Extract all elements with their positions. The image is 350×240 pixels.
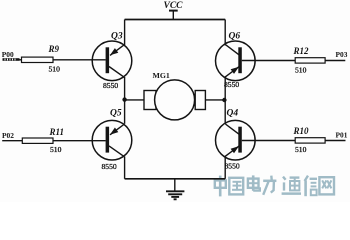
- wire Q5 collector to bottom rail: [124, 156, 126, 178]
- wire rail to Q3 emitter: [124, 20, 126, 46]
- svg-text:Q3: Q3: [111, 32, 123, 42]
- resistor R10: [242, 138, 346, 143]
- resistor R11: [2, 138, 105, 143]
- svg-text:510: 510: [295, 145, 307, 154]
- resistor R9: [20, 57, 106, 62]
- 通: [282, 177, 301, 194]
- svg-text:510: 510: [295, 65, 307, 74]
- transistor Q6: [216, 41, 256, 81]
- wire Q4 emitter to bottom rail: [224, 156, 226, 179]
- svg-text:R12: R12: [293, 46, 310, 56]
- svg-text:MG1: MG1: [153, 71, 170, 80]
- svg-text:P00: P00: [2, 50, 14, 59]
- svg-text:510: 510: [49, 64, 61, 73]
- motor MG1: [125, 80, 226, 120]
- wire Q3 collector down to node A: [124, 77, 126, 124]
- svg-text:Q5: Q5: [110, 109, 122, 119]
- svg-text:R9: R9: [48, 44, 60, 54]
- 信: [305, 176, 317, 197]
- svg-text:P02: P02: [2, 131, 14, 140]
- svg-text:8550: 8550: [103, 81, 118, 90]
- VCC power symbol: [169, 11, 178, 20]
- svg-text:R10: R10: [293, 126, 310, 136]
- node A junction dot: [122, 97, 126, 101]
- transistor Q5: [92, 120, 132, 160]
- svg-text:Q4: Q4: [227, 109, 239, 119]
- wire Q6 emitter down to node B: [224, 76, 226, 123]
- svg-text:Q6: Q6: [229, 32, 241, 42]
- 电: [248, 175, 260, 190]
- svg-text:510: 510: [50, 145, 62, 154]
- wire rail to Q6 collector: [224, 20, 226, 46]
- node B junction dot: [222, 98, 226, 102]
- svg-text:R11: R11: [49, 127, 65, 137]
- transistor Q3: [92, 41, 132, 81]
- svg-text:8550: 8550: [102, 162, 117, 171]
- 网: [319, 177, 334, 194]
- svg-text:8550: 8550: [224, 80, 239, 89]
- ground: [166, 179, 184, 200]
- 中: [215, 176, 226, 197]
- 力: [263, 176, 276, 195]
- 国: [229, 178, 243, 195]
- resistor R12: [242, 58, 345, 63]
- svg-text:VCC: VCC: [164, 1, 184, 11]
- svg-text:P03: P03: [336, 50, 348, 59]
- svg-text:8550: 8550: [225, 161, 240, 170]
- transistor Q4: [216, 120, 256, 160]
- wire top rail: [125, 19, 226, 21]
- wire bottom rail: [125, 178, 226, 180]
- watermark 中国电力通信网: [215, 175, 334, 196]
- svg-text:P01: P01: [336, 131, 348, 140]
- port P00 connector: [3, 58, 20, 61]
